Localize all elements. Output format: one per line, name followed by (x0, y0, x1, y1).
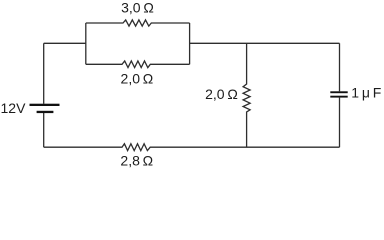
svg-text:3,0 Ω: 3,0 Ω (121, 0, 154, 15)
svg-text:2,0 Ω: 2,0 Ω (205, 86, 238, 102)
svg-text:1 μ F: 1 μ F (351, 85, 381, 101)
svg-text:2,8 Ω: 2,8 Ω (120, 153, 153, 169)
svg-text:12V: 12V (1, 100, 27, 116)
svg-text:2,0 Ω: 2,0 Ω (121, 71, 154, 87)
